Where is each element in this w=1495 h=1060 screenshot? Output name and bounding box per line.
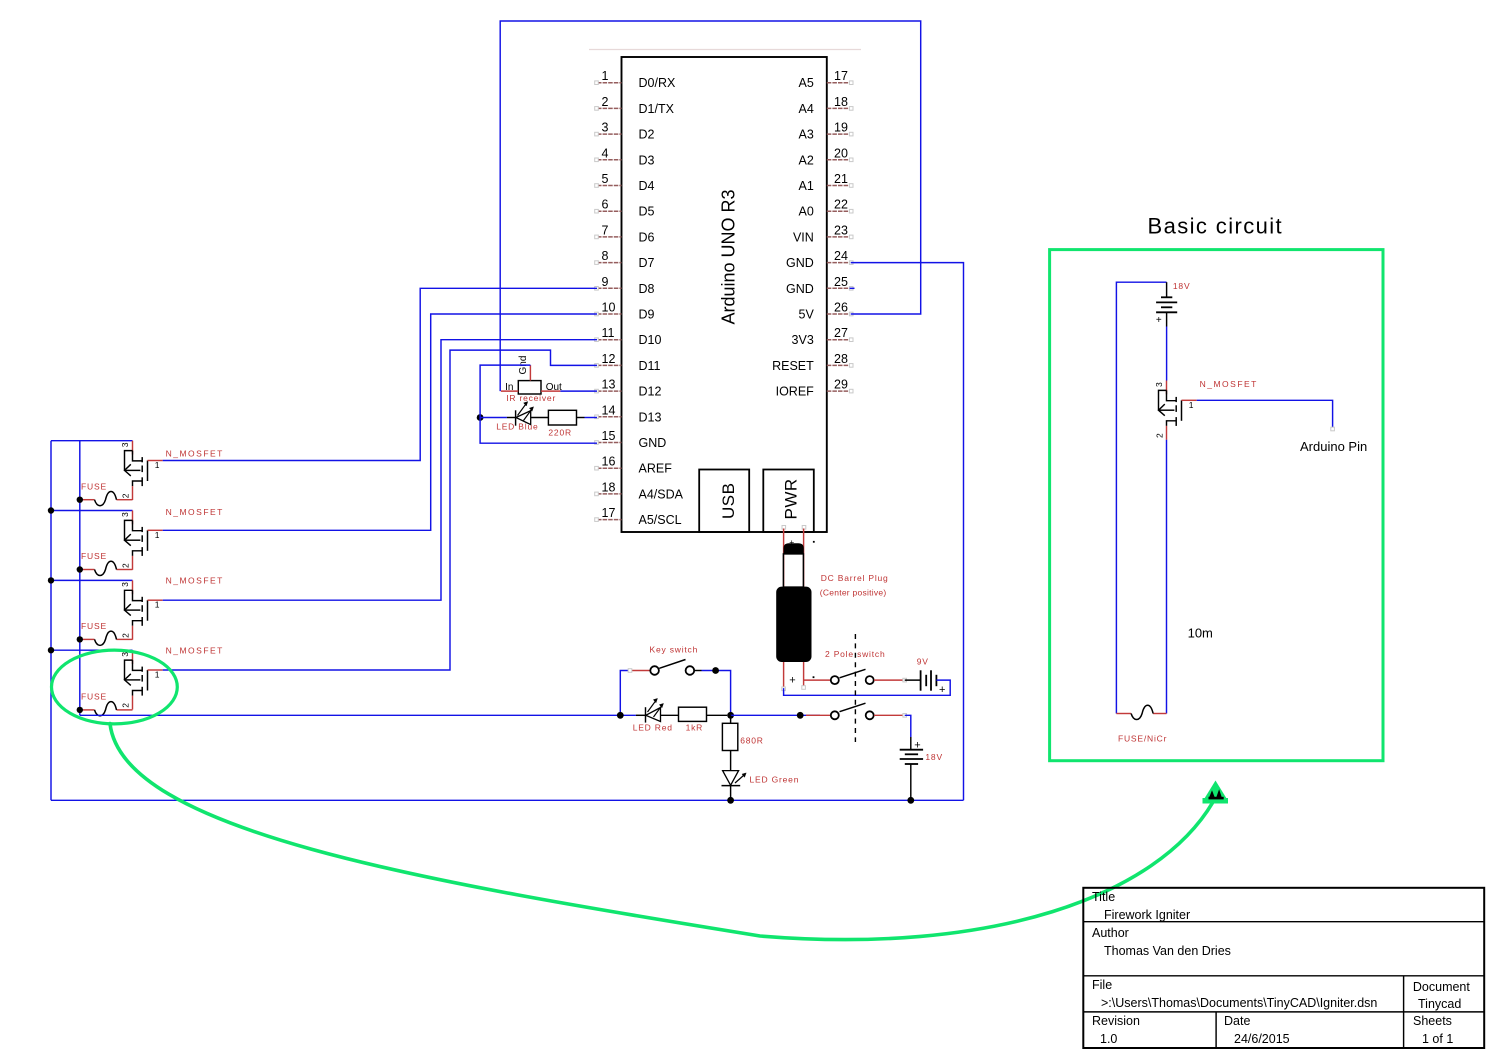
pin 20 A2 (right) (827, 159, 851, 161)
svg-text:1: 1 (155, 600, 160, 610)
svg-text:18: 18 (834, 95, 848, 109)
wire drain row 2 (51, 510, 133, 512)
svg-text:Out: Out (546, 382, 562, 393)
svg-text:21: 21 (834, 172, 848, 186)
resistor 220R (548, 410, 576, 425)
svg-text:Arduino Pin: Arduino Pin (1300, 439, 1367, 454)
svg-text:USB: USB (719, 483, 738, 519)
svg-text:LED Blue: LED Blue (496, 422, 538, 432)
svg-text:AREF: AREF (639, 462, 673, 476)
node main junction 680R (727, 712, 734, 719)
svg-text:D6: D6 (639, 230, 655, 244)
LED Red arrows (648, 701, 656, 712)
svg-text:A5/SCL: A5/SCL (639, 513, 682, 527)
svg-text:29: 29 (834, 378, 848, 392)
svg-text:IOREF: IOREF (776, 385, 815, 399)
node fuse junction 3 (77, 636, 83, 642)
node main junction switch (797, 712, 804, 719)
LED Blue diode (507, 417, 516, 419)
svg-text:3: 3 (602, 121, 609, 135)
svg-text:2: 2 (602, 95, 609, 109)
pin PWR + (782, 526, 786, 530)
fuse F5 NiCr (1116, 713, 1131, 715)
svg-text:A0: A0 (799, 205, 814, 219)
transistor Q1 N_MOSFET (132, 441, 134, 455)
svg-text:FUSE: FUSE (81, 481, 107, 491)
svg-text:17: 17 (834, 69, 848, 83)
svg-text:2: 2 (121, 703, 131, 708)
svg-text:19: 19 (834, 121, 848, 135)
wire (589, 49, 861, 51)
svg-text:A3: A3 (799, 128, 814, 142)
wire left bus vertical (50, 441, 52, 801)
svg-text:18V: 18V (1173, 281, 1191, 291)
wire 9V to plug bottom loop (784, 680, 951, 695)
wire 220R to D13 (585, 417, 598, 419)
svg-text:220R: 220R (548, 428, 572, 438)
LED Green arrow (735, 776, 744, 784)
pin 19 A3 (right) (827, 133, 851, 135)
pin 24 GND (right) (827, 262, 851, 264)
svg-text:+: + (914, 739, 920, 751)
pin 26 5V (right) (827, 313, 851, 315)
svg-text:D8: D8 (639, 282, 655, 296)
pin 28 RESET (right) (827, 364, 851, 366)
svg-text:A1: A1 (799, 179, 814, 193)
wire gate to Arduino Pin (1197, 400, 1333, 428)
svg-text:N_MOSFET: N_MOSFET (166, 448, 224, 458)
svg-text:10m: 10m (1188, 626, 1213, 641)
svg-text:4: 4 (602, 146, 609, 160)
svg-text:Revision: Revision (1092, 1014, 1140, 1028)
pin Gnd stub (529, 365, 531, 381)
svg-text:2: 2 (121, 633, 131, 638)
svg-text:Author: Author (1092, 926, 1129, 940)
pin 29 IOREF (right) (827, 390, 851, 392)
switch linkage dashed (854, 634, 856, 742)
pin 2 D1/TX (left) (597, 107, 622, 109)
LED Blue arrows (518, 405, 526, 416)
svg-text:13: 13 (602, 378, 616, 392)
pin 17 A5 (right) (827, 82, 851, 84)
pin 3 D2 (left) (597, 133, 622, 135)
IC U1 Arduino UNO R3 body (622, 57, 827, 532)
wire junction to LED Blue (480, 417, 507, 419)
svg-text:FUSE: FUSE (81, 692, 107, 702)
svg-text:Document: Document (1413, 980, 1470, 994)
svg-text:3: 3 (120, 582, 130, 587)
title block dividers (1083, 921, 1484, 923)
pin 7 D6 (left) (597, 236, 622, 238)
svg-text:D13: D13 (639, 410, 662, 424)
svg-text:5: 5 (602, 172, 609, 186)
svg-text:+: + (1156, 315, 1162, 326)
node 18V bottom junction (907, 797, 914, 804)
svg-text:1: 1 (155, 530, 160, 540)
node fuse junction 4 (77, 707, 83, 713)
svg-text:12: 12 (602, 352, 616, 366)
svg-text:8: 8 (602, 249, 609, 263)
svg-text:+: + (789, 537, 794, 547)
transistor Q4 N_MOSFET (132, 650, 134, 664)
wire GND pin24 to right bus (851, 263, 964, 801)
pin 4 D3 (left) (597, 159, 622, 161)
svg-text:2: 2 (121, 563, 131, 568)
pin 16 AREF (left) (597, 467, 622, 469)
svg-text:23: 23 (834, 223, 848, 237)
green arrowhead (1204, 781, 1228, 801)
svg-text:In: In (505, 382, 513, 393)
svg-text:1 of 1: 1 of 1 (1422, 1032, 1453, 1046)
fuse F1 (80, 499, 95, 501)
svg-text:GND: GND (786, 282, 814, 296)
svg-text:RESET: RESET (772, 359, 814, 373)
svg-text:Arduino UNO R3: Arduino UNO R3 (719, 189, 739, 324)
svg-text:10: 10 (602, 301, 616, 315)
svg-text:(Center positive): (Center positive) (820, 588, 887, 598)
svg-text:3V3: 3V3 (792, 333, 814, 347)
svg-text:N_MOSFET: N_MOSFET (166, 507, 224, 517)
svg-text:27: 27 (834, 326, 848, 340)
svg-text:D1/TX: D1/TX (639, 102, 675, 116)
green annotation curve (110, 724, 1213, 940)
svg-text:9: 9 (602, 275, 609, 289)
wire switch to 9V battery (905, 679, 921, 681)
wire main row to pole switch (731, 714, 820, 716)
wire gate Q2 to Arduino (163, 314, 597, 530)
svg-text:16: 16 (602, 455, 616, 469)
svg-text:Thomas Van den Dries: Thomas Van den Dries (1104, 944, 1231, 958)
resistor 1kR (679, 707, 707, 721)
svg-text:PWR: PWR (782, 478, 801, 519)
svg-text:+: + (939, 684, 945, 696)
svg-text:15: 15 (602, 429, 616, 443)
node LED Green bottom junction (727, 797, 734, 804)
wire junction up to IR Gnd (480, 365, 530, 417)
pin 8 D7 (left) (597, 262, 622, 264)
svg-text:D5: D5 (639, 205, 655, 219)
svg-text:5V: 5V (799, 308, 815, 322)
svg-text:D9: D9 (639, 308, 655, 322)
svg-text:D10: D10 (639, 333, 662, 347)
green highlight ellipse (52, 650, 178, 724)
svg-text:24: 24 (834, 249, 848, 263)
DC barrel plug wires (783, 529, 785, 689)
svg-text:20: 20 (834, 146, 848, 160)
pin 25 GND (right) (827, 287, 851, 289)
svg-text:+: + (789, 675, 795, 687)
pin 14 D13 (left) (597, 416, 622, 418)
svg-text:N_MOSFET: N_MOSFET (166, 645, 224, 655)
node LED Red left junction (617, 712, 624, 719)
svg-text:680R: 680R (740, 736, 764, 746)
svg-text:N_MOSFET: N_MOSFET (166, 575, 224, 585)
svg-text:FUSE/NiCr: FUSE/NiCr (1118, 734, 1167, 744)
wire gate Q3 to Arduino (163, 340, 597, 601)
svg-text:Firework Igniter: Firework Igniter (1104, 908, 1190, 922)
switch S1 Key switch (629, 670, 650, 672)
PWR connector box (763, 470, 814, 533)
svg-text:17: 17 (602, 506, 616, 520)
svg-text:LED Green: LED Green (750, 774, 800, 784)
pin 10 D9 (left) (597, 313, 622, 315)
node drain junction 2 (48, 507, 54, 513)
pin 18 A4 (right) (827, 107, 851, 109)
svg-text:LED Red: LED Red (633, 723, 673, 733)
svg-text:A4/SDA: A4/SDA (639, 487, 684, 501)
svg-text:IR receiver: IR receiver (506, 393, 556, 403)
DC barrel plug body (784, 544, 803, 554)
battery B1 9V (920, 670, 922, 690)
svg-text:FUSE: FUSE (81, 621, 107, 631)
wire key switch left (620, 671, 629, 716)
svg-text:3: 3 (120, 512, 130, 517)
svg-text:D11: D11 (639, 359, 661, 373)
fuse F3 (80, 638, 95, 640)
svg-text:A4: A4 (799, 102, 814, 116)
svg-text:File: File (1092, 978, 1112, 992)
wire junction down to GND pin15 (480, 418, 597, 444)
pin 18 A4/SDA (left) (597, 493, 622, 495)
svg-text:GND: GND (639, 436, 667, 450)
svg-text:2: 2 (1155, 433, 1165, 438)
wire plug pin to switch (804, 679, 831, 681)
svg-text:Key switch: Key switch (650, 644, 699, 654)
pin 12 D11 (left) (597, 364, 622, 366)
node fuse junction 2 (77, 566, 83, 572)
node key switch junction (712, 667, 719, 674)
pin In stub (501, 390, 518, 392)
svg-text:25: 25 (834, 275, 848, 289)
svg-text:11: 11 (602, 326, 615, 340)
svg-text:>:\Users\Thomas\Documents\Tiny: >:\Users\Thomas\Documents\TinyCAD\Ignite… (1101, 996, 1377, 1010)
svg-text:18V: 18V (925, 752, 943, 762)
wire key switch right (702, 671, 731, 716)
wire drain row 3 (51, 579, 133, 581)
svg-text:D7: D7 (639, 256, 655, 270)
svg-text:D12: D12 (639, 385, 662, 399)
svg-text:1.0: 1.0 (1100, 1032, 1117, 1046)
wire battery to mosfet (1166, 327, 1168, 381)
svg-text:D4: D4 (639, 179, 655, 193)
svg-text:N_MOSFET: N_MOSFET (1200, 379, 1258, 389)
wire 5V loop to IR receiver (500, 21, 921, 391)
pin 5 D4 (left) (597, 185, 622, 187)
node drain junction 3 (48, 577, 54, 583)
svg-text:14: 14 (602, 403, 616, 417)
pin 15 GND (left) (597, 442, 622, 444)
svg-text:1: 1 (602, 69, 609, 83)
svg-text:6: 6 (602, 198, 609, 212)
label plug dot bottom (813, 676, 815, 678)
wire pin25 stub (850, 287, 855, 289)
IR receiver body (518, 381, 541, 394)
pin 11 D10 (left) (597, 339, 622, 341)
pin 1 D0/RX (left) (597, 82, 622, 84)
transistor Q5 N_MOSFET basic (1166, 381, 1168, 395)
svg-text:3: 3 (1154, 382, 1164, 387)
svg-text:A5: A5 (799, 76, 814, 90)
svg-text:7: 7 (602, 223, 609, 237)
svg-text:1: 1 (1189, 400, 1194, 410)
svg-text:26: 26 (834, 301, 848, 315)
wire drain row 4 (51, 649, 133, 651)
wire gate Q4 to Arduino (163, 350, 597, 670)
fuse F2 (80, 569, 95, 571)
wire gate Q1 to Arduino (163, 288, 597, 460)
svg-text:Title: Title (1092, 890, 1115, 904)
wire inner bus vertical (79, 441, 81, 716)
pin 21 A1 (right) (827, 185, 851, 187)
svg-text:A2: A2 (799, 153, 814, 167)
LED Red diode (636, 714, 646, 716)
svg-text:1: 1 (155, 460, 160, 470)
battery B2 18V (910, 737, 912, 750)
node GND junction (477, 414, 484, 421)
svg-text:Tinycad: Tinycad (1418, 997, 1461, 1011)
LED Green diode (730, 751, 732, 771)
fuse F4 (80, 709, 95, 711)
switch S2a pole 1 (831, 676, 839, 684)
USB connector box (699, 470, 749, 533)
pin 13 D12 (left) (597, 390, 622, 392)
pin 6 D5 (left) (597, 210, 622, 212)
transistor Q2 N_MOSFET (132, 511, 134, 525)
pin PWR - (802, 526, 806, 530)
svg-text:D0/RX: D0/RX (639, 76, 676, 90)
svg-text:9V: 9V (917, 657, 929, 667)
node fuse junction 1 (77, 497, 83, 503)
svg-text:GND: GND (786, 256, 814, 270)
wire bottom ground bus (51, 799, 964, 801)
pin 27 3V3 (right) (827, 339, 851, 341)
svg-text:22: 22 (834, 198, 848, 212)
svg-text:24/6/2015: 24/6/2015 (1234, 1032, 1290, 1046)
transistor Q3 N_MOSFET (132, 580, 134, 594)
svg-text:1: 1 (155, 670, 160, 680)
resistor 680R (730, 715, 732, 723)
title block frame (1083, 888, 1484, 1048)
pin 17 A5/SCL (left) (597, 519, 622, 521)
svg-text:Basic circuit: Basic circuit (1148, 214, 1284, 239)
pin 9 D8 (left) (597, 287, 622, 289)
svg-text:Sheets: Sheets (1413, 1014, 1452, 1028)
svg-text:Date: Date (1224, 1014, 1250, 1028)
svg-text:VIN: VIN (793, 230, 814, 244)
switch S2b pole 2 (806, 714, 831, 716)
node drain junction 4 (48, 647, 54, 653)
svg-text:18: 18 (602, 480, 616, 494)
svg-text:28: 28 (834, 352, 848, 366)
pin 23 VIN (right) (827, 236, 851, 238)
svg-text:D3: D3 (639, 153, 655, 167)
label plug dot top (813, 541, 815, 543)
wire main row left segment (80, 714, 636, 716)
svg-text:D2: D2 (639, 128, 655, 142)
svg-text:3: 3 (120, 442, 130, 447)
pin 22 A0 (right) (827, 210, 851, 212)
svg-text:1kR: 1kR (686, 723, 704, 733)
wire switch to 18V battery (905, 715, 911, 737)
pin Out stub (541, 390, 560, 392)
basic circuit green box (1050, 250, 1383, 761)
svg-text:FUSE: FUSE (81, 551, 107, 561)
wire mosfet source down (1166, 440, 1168, 714)
wire Out to D12 (560, 390, 597, 392)
svg-text:2: 2 (121, 493, 131, 498)
svg-text:DC Barrel Plug: DC Barrel Plug (821, 573, 889, 583)
wire drain row 1 (51, 440, 133, 442)
battery B3 18V basic (1116, 282, 1166, 713)
